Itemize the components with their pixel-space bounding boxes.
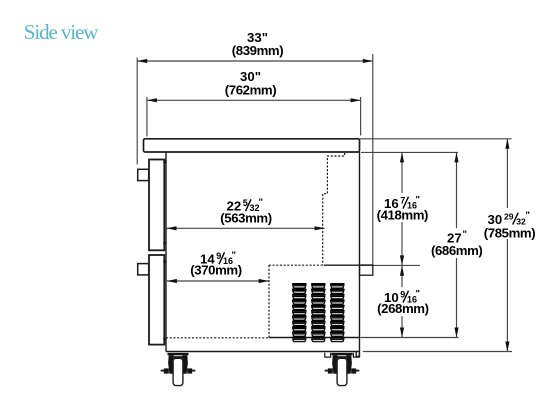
dashed shelf left <box>269 264 323 266</box>
arrowheads <box>137 59 509 352</box>
svg-text:": " <box>525 210 530 221</box>
dimension line 30 29/32 <box>506 139 508 352</box>
dimension line 10 9/16 <box>401 266 403 338</box>
compressor louver grille <box>292 283 345 342</box>
arrow 33 right <box>363 59 373 63</box>
dimension texts <box>225 30 283 98</box>
arrow 30h up <box>505 139 509 149</box>
label 30 29/32" <box>488 210 530 227</box>
upper door <box>149 160 164 251</box>
extension line body top right <box>361 151 458 153</box>
label 27" <box>447 229 467 246</box>
extension line 30" left <box>146 97 148 137</box>
body right wall with foot <box>356 152 359 357</box>
svg-text:": " <box>232 250 237 261</box>
arrow 27 down <box>454 328 458 338</box>
base top dashed (hidden behind doors) <box>166 337 269 339</box>
extension line top right (countertop top) <box>360 138 512 140</box>
svg-text:": " <box>259 197 264 208</box>
svg-text:(418mm): (418mm) <box>377 207 428 222</box>
dimension line 16 7/16 <box>401 152 403 265</box>
compressor shelf <box>324 264 360 266</box>
label 14 9/16" <box>200 250 236 266</box>
label 16 7/16" <box>384 194 420 210</box>
hinge lower door top <box>163 260 166 263</box>
dimension line 22 5/32 <box>167 227 325 229</box>
base bottom line <box>166 351 360 353</box>
label 10 9/16" <box>384 288 420 304</box>
svg-text:": " <box>463 229 468 240</box>
lower door <box>149 255 164 345</box>
arrow 33 left <box>137 59 147 63</box>
dimension line 33" <box>137 60 373 62</box>
arrow 22 right <box>315 226 325 230</box>
base top solid (under compressor) <box>269 337 360 339</box>
arrow 22 left <box>167 226 177 230</box>
extension line base bottom right <box>363 351 512 353</box>
arrow 10 down <box>400 328 404 338</box>
rear protrusion box <box>360 265 373 275</box>
extension line split right <box>361 264 421 266</box>
dashed compressor wall <box>268 265 270 338</box>
svg-text:(686mm): (686mm) <box>431 243 482 258</box>
caster right mounting bracket <box>325 353 359 357</box>
label 22 5/32" <box>227 197 264 213</box>
dimension line 27 <box>456 152 458 337</box>
drawing object <box>138 139 373 357</box>
arrow 30 right <box>351 98 361 102</box>
extension line body bottom right <box>361 337 459 339</box>
arrow 27 up <box>454 152 458 162</box>
caster left <box>161 353 196 386</box>
dimension line 14 9/16 <box>167 280 269 282</box>
svg-text:(370mm): (370mm) <box>190 262 241 277</box>
dashed interior duct <box>323 153 345 265</box>
svg-text:Side view: Side view <box>24 20 99 44</box>
svg-text:": " <box>416 194 421 205</box>
extension line 33" left <box>136 58 138 165</box>
body front wall <box>165 152 167 352</box>
extension line 30" right <box>360 97 362 136</box>
extension line 33" right (rear) <box>372 54 374 265</box>
arrow 16 down <box>400 255 404 265</box>
svg-text:(762mm): (762mm) <box>225 82 276 97</box>
lower handle <box>138 264 149 275</box>
dimension line 30" <box>147 99 361 101</box>
arrow 30h down <box>505 342 509 352</box>
svg-text:(268mm): (268mm) <box>377 301 428 316</box>
hinge upper door bottom <box>163 242 166 245</box>
countertop <box>144 139 360 152</box>
arrow 10 up <box>400 266 404 276</box>
svg-text:(563mm): (563mm) <box>220 211 271 226</box>
arrow 16 up <box>400 152 404 162</box>
upper handle <box>138 169 149 180</box>
hinge lower door bottom <box>163 338 166 341</box>
arrow 30 left <box>147 98 157 102</box>
svg-text:(839mm): (839mm) <box>232 43 283 58</box>
hinge upper door top <box>163 160 166 163</box>
arrow 14 right <box>259 279 269 283</box>
svg-text:": " <box>416 288 421 299</box>
arrow 14 left <box>167 279 177 283</box>
svg-text:29: 29 <box>504 211 514 221</box>
white masks behind right-side labels <box>377 193 534 316</box>
svg-text:(785mm): (785mm) <box>484 225 535 240</box>
caster right <box>325 353 360 386</box>
